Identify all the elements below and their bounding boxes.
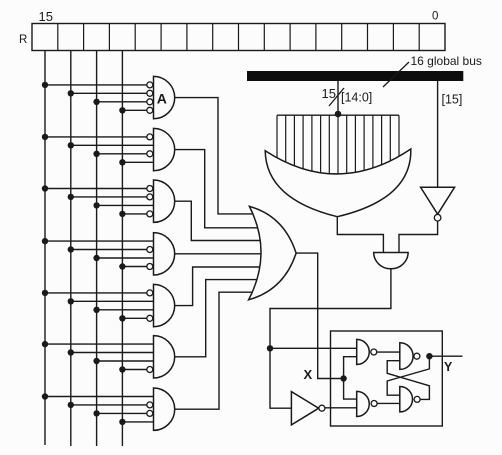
junction X node [340,375,346,381]
and-gate U3 [147,180,175,222]
wire U1 output to U8 in1 [175,98,262,214]
wire U8 output to X node [296,253,344,378]
wire bit15 vertical bus [44,51,46,446]
wire U9 output to U11 in1 [337,217,383,253]
and-gate U6 [147,336,175,378]
junction S node [267,345,273,351]
wire bit12 vertical bus [121,51,123,447]
wire U15 output feedback to U16 in1 [387,356,429,395]
latch box [331,331,443,426]
and-gate U11 [374,253,408,269]
wire bit13 vertical bus [96,51,98,447]
bus leader slash [383,62,409,87]
svg-text:[15]: [15] [442,93,463,107]
wire U16 output feedback to U15 in2 [387,361,429,400]
nand-gate U13 (top-left) [357,339,377,364]
wire taps U4 + junctions [42,238,154,270]
svg-text:R: R [19,34,27,46]
wire taps U7 + junctions [42,393,154,425]
svg-text:X: X [304,367,313,382]
wire U3 output to U8 in3 [175,201,262,240]
register R (16 cells) [32,24,445,51]
wire U2 output to U8 in2 [175,150,262,228]
wire U6 output to U8 in6 [175,280,262,357]
inverter U12 [291,392,325,425]
wire U4 output to U8 in4 [175,253,262,255]
wire U12 output to U14 in2 [325,407,357,409]
svg-text:A: A [157,91,167,107]
wire taps U1 + junctions [42,82,147,114]
wire taps U5 + junctions [42,290,154,322]
wire S branch to U13 in1 [270,347,357,349]
wire U14 output to U16 in2 [377,402,400,404]
and-gate U2 [147,128,175,170]
and-gate U5 [147,284,175,326]
nand-gate U14 (bottom-left) [357,391,377,416]
svg-text:Y: Y [444,360,453,374]
wire taps U6 + junctions [42,341,154,373]
nand-gate U15 (top-right) [400,343,420,370]
svg-text:15: 15 [322,86,336,101]
wire U11 output to S node and inverter U12 [270,269,391,408]
svg-text:0: 0 [432,10,438,22]
and-gate U7 [147,388,175,430]
or-gate U9 (15-input wide OR) [265,149,411,217]
svg-text:16 global bus: 16 global bus [411,54,482,68]
junction Y node [426,353,432,359]
bus width slash 15 [329,88,344,106]
junction [14:0] node [335,111,342,118]
svg-text:15: 15 [39,9,53,24]
wire U5 output to U8 in5 [175,267,262,306]
inverter U10 [421,187,455,221]
svg-text:[14:0]: [14:0] [341,91,372,105]
wire bit14 vertical bus [70,51,72,447]
and-gate U4 [147,233,175,275]
wire Y output [429,355,462,357]
wire X node to U13 in2 and U14 in1 [344,357,357,399]
nand-gate U16 (bottom-right) [400,387,420,412]
wire [15] drop to U10 [437,80,439,187]
and-gate U1 (A) [147,76,175,118]
or-gate U8 (7-input) [249,206,297,299]
wire [14:0] drop from bus [337,80,339,115]
global bus bar (16 global bus) [247,71,463,81]
wire taps U3 + junctions [42,185,154,217]
wire taps U2 + junctions [42,134,154,166]
wire U10 output to U11 in2 [399,221,438,253]
comb fanout of [14:0] into U9 [277,115,399,179]
wire U7 output to U8 in7 [175,292,262,409]
wire U13 output to U15 in1 [377,351,400,353]
